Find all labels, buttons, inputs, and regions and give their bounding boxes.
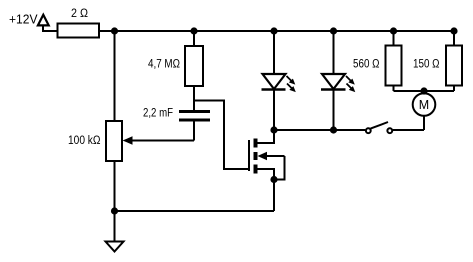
switch S1 lever xyxy=(371,122,389,129)
wire resistor 150 bottom stub xyxy=(453,86,455,92)
wire MOSFET source down to bottom rail xyxy=(273,180,275,212)
wire top rail to resistor 560 top xyxy=(393,31,395,46)
wire bottom rail xyxy=(115,210,275,212)
node junction top rail / potentiometer branch xyxy=(111,27,118,34)
switch S1 left contact xyxy=(366,128,371,133)
wire top rail to resistor 150 top xyxy=(453,31,455,46)
resistor 560 ohm body xyxy=(386,46,402,86)
node +12V supply label xyxy=(9,12,38,27)
wire LED1 cathode to drain node xyxy=(273,90,275,131)
resistor 150 ohm value label xyxy=(413,59,440,71)
wire motor top lead to resistor bottom rail xyxy=(423,91,425,93)
transistor Q1 MOSFET drain stub xyxy=(258,130,275,143)
svg-text:2 Ω: 2 Ω xyxy=(71,8,88,20)
svg-text:+12V: +12V xyxy=(9,12,38,27)
resistor 4,7M value label xyxy=(148,59,180,71)
node junction LED2 cathode on rail xyxy=(330,126,337,133)
resistor 4,7M body xyxy=(185,46,203,86)
wire top rail to LED1 anode xyxy=(273,31,275,74)
diode LED2 cathode bar xyxy=(321,88,346,90)
svg-text:M: M xyxy=(419,98,429,112)
wire top rail to potentiometer top xyxy=(114,31,116,121)
potentiometer 100k wiper arrow xyxy=(123,136,195,144)
capacitor 2,2mF plates xyxy=(179,112,210,121)
svg-text:560 Ω: 560 Ω xyxy=(353,59,380,71)
svg-text:2,2 mF: 2,2 mF xyxy=(143,107,173,119)
wire motor bottom lead xyxy=(423,116,425,130)
node junction top rail / LED2 branch xyxy=(330,27,337,34)
wire from +12V symbol to R 2ohm xyxy=(43,25,58,31)
transistor Q1 MOSFET body arrow and tie to source xyxy=(258,152,285,180)
svg-text:100 kΩ: 100 kΩ xyxy=(68,135,101,147)
wire capacitor bottom to wiper line xyxy=(193,122,195,141)
switch S1 right contact xyxy=(387,128,392,133)
diode LED2 triangle xyxy=(322,74,345,89)
wire resistor 560 bottom stub xyxy=(393,86,395,92)
diode LED1 cathode bar xyxy=(262,88,286,90)
wire top supply rail xyxy=(99,30,454,32)
svg-text:4,7 MΩ: 4,7 MΩ xyxy=(148,59,180,71)
node junction MOSFET source / body tie xyxy=(270,176,277,183)
ground xyxy=(106,242,124,252)
resistor 560 ohm value label xyxy=(353,59,380,71)
node junction top rail / 150 ohm branch xyxy=(450,27,457,34)
resistor 2 ohm body xyxy=(58,24,100,38)
wire LED2 cathode to rail xyxy=(333,90,335,131)
node junction top rail / LED1 branch xyxy=(270,27,277,34)
diode LED1 light arrows xyxy=(287,76,296,92)
motor M1 circle xyxy=(413,93,436,116)
potentiometer 100k body xyxy=(106,121,122,161)
capacitor 2,2mF value label xyxy=(143,107,173,119)
resistor 2 ohm value label xyxy=(71,8,88,20)
wire potentiometer bottom to ground node xyxy=(114,161,116,242)
wire top rail to LED2 anode xyxy=(333,31,335,74)
diode LED1 triangle xyxy=(263,74,286,89)
node junction bottom rail xyxy=(111,207,118,214)
wire LED rail to switch xyxy=(274,129,365,131)
wire resistor 4,7M bottom to capacitor top xyxy=(193,86,195,111)
transistor Q1 MOSFET channel segments xyxy=(254,139,258,174)
node junction top rail / 560 ohm branch xyxy=(390,27,397,34)
wire switch to motor branch xyxy=(393,129,424,131)
transistor Q1 MOSFET source stub xyxy=(258,169,275,180)
resistor 150 ohm body xyxy=(446,46,462,86)
node junction MOSFET drain / LED1 cathode rail xyxy=(270,126,277,133)
wire gate branch from RC node to MOSFET gate xyxy=(194,101,248,170)
potentiometer 100k value label xyxy=(68,135,101,147)
diode LED2 light arrows xyxy=(346,76,355,92)
svg-text:150 Ω: 150 Ω xyxy=(413,59,440,71)
node junction top rail / 4,7M branch xyxy=(190,27,197,34)
wire resistor bottom rail joining 560 and 150 xyxy=(394,90,455,92)
node junction motor / resistor bottom rail xyxy=(420,87,427,94)
motor M1 letter xyxy=(419,98,429,112)
wire top rail to resistor 4,7M top xyxy=(193,31,195,46)
transistor Q1 MOSFET gate bar xyxy=(248,140,250,171)
power symbol +12V triangle xyxy=(38,15,49,26)
